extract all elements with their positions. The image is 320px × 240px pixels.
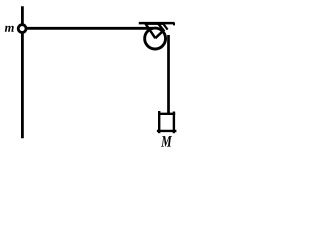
label m [5,26,14,32]
mass M block bottom edge [157,130,177,132]
ring m on rod [18,25,26,33]
bar right tick [173,23,175,25]
rod (vertical) [21,6,24,138]
bracket right outer hatch [163,23,168,29]
bracket right arm [155,24,163,39]
ceiling bar [139,22,175,25]
wire horizontal rope [26,27,153,30]
mass M block top edge [158,113,175,115]
mass M block right edge [173,112,175,134]
label M [161,136,172,146]
bar under-plate [145,23,164,25]
mass M block left edge [158,111,160,133]
bracket left arm [145,24,155,39]
pulley U1 [145,28,166,49]
wire vertical rope [167,35,170,115]
